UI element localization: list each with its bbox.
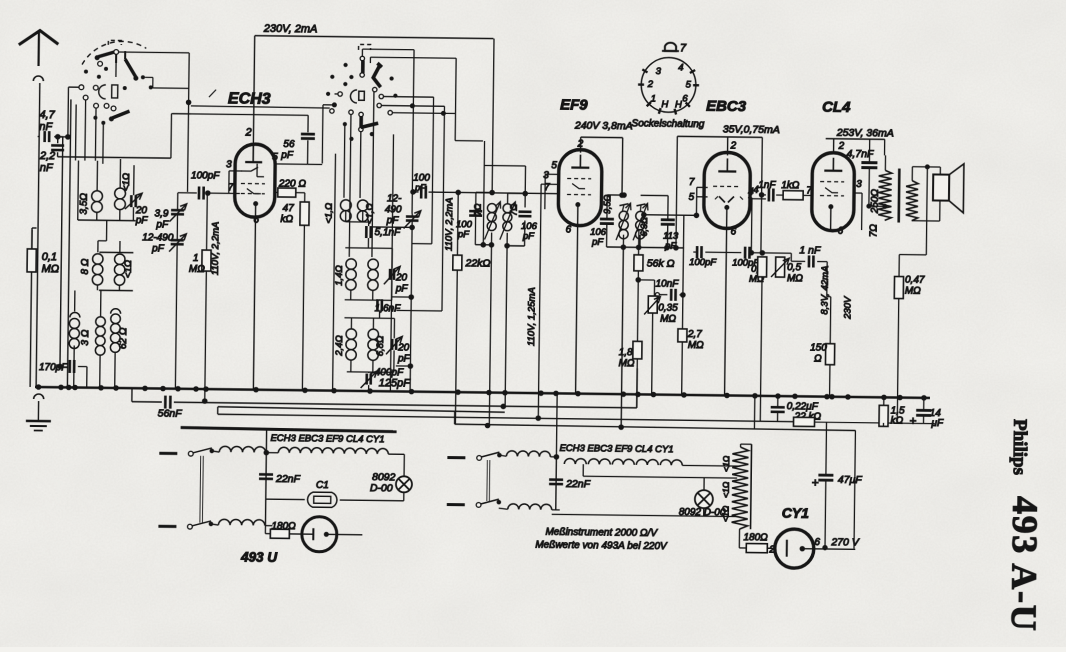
label 35V 0,75mA (723, 123, 780, 136)
wire grid left (178, 192, 197, 194)
wire left col (30, 230, 36, 387)
wire 828 detail (827, 268, 831, 297)
svg-text:2,2: 2,2 (39, 150, 55, 162)
svg-text:2: 2 (730, 140, 737, 151)
wire left verticals (54, 99, 71, 387)
socket bell 7 (662, 42, 687, 54)
resistor 22kohm (451, 190, 491, 424)
EBC3 pin2 wire (727, 137, 736, 156)
svg-text:110V, 1,25mA: 110V, 1,25mA (526, 287, 538, 346)
mid stack wiring (320, 154, 396, 409)
resistor 1kohm cpl (776, 180, 812, 200)
capacitor 1nF det (791, 244, 828, 296)
svg-text:<1,Ω: <1,Ω (324, 203, 335, 224)
svg-text:Ω: Ω (814, 354, 822, 365)
EBC3 internals (713, 158, 744, 228)
bus dots (36, 385, 926, 400)
trimmer 400pF 125pF (361, 367, 412, 390)
wire 0,1M tap (32, 228, 37, 249)
heater row R (559, 443, 740, 466)
svg-text:7: 7 (680, 42, 687, 54)
trimmer 20pF c (386, 336, 411, 364)
socket circle (638, 57, 700, 115)
ECH3 pin7 (228, 182, 240, 193)
svg-text:270 V: 270 V (830, 536, 860, 548)
svg-text:4,7: 4,7 (39, 109, 55, 121)
band switch S1 dashed arc (82, 41, 146, 65)
wire EBC3 anode load (674, 136, 765, 253)
trimmer 3,9pF (154, 192, 186, 230)
svg-text:20: 20 (397, 342, 410, 353)
coil M1b (357, 200, 376, 224)
wire grid-top (536, 209, 545, 420)
wire 755 (753, 396, 755, 429)
svg-text:pF: pF (414, 183, 426, 193)
svg-text:3: 3 (656, 66, 662, 77)
coil IF2b 6,3ohm (633, 203, 649, 240)
svg-text:35V,0,75mA: 35V,0,75mA (723, 123, 780, 136)
svg-text:<1,Ω: <1,Ω (365, 203, 376, 224)
resistor 180ohm R (739, 532, 775, 555)
svg-text:8,3V, 42mA: 8,3V, 42mA (820, 266, 832, 315)
capacitor 2,2nF (39, 137, 65, 175)
svg-text:10nF: 10nF (655, 279, 679, 290)
coil M2a (334, 259, 357, 290)
coil L3b (95, 307, 106, 356)
svg-text:230V, 2mA: 230V, 2mA (263, 23, 318, 36)
wire 230V corner down (490, 39, 497, 195)
label CL4 (822, 99, 851, 116)
resistor 0,1Mohm det (756, 251, 767, 422)
wire 884 col (881, 320, 883, 322)
tuner 12-490pF osc (371, 193, 421, 392)
wire w2 to IF1 (481, 141, 487, 247)
svg-text:3 Ω: 3 Ω (80, 329, 91, 345)
capacitor 10nF (654, 279, 685, 301)
svg-text:pF: pF (397, 353, 411, 364)
ground (26, 387, 52, 431)
svg-text:150: 150 (810, 342, 827, 353)
CL4 pin3 (854, 179, 863, 230)
svg-text:CL4: CL4 (822, 99, 851, 116)
label 4,7nF out (846, 148, 874, 160)
svg-text:5: 5 (689, 192, 695, 203)
svg-text:<1Ω: <1Ω (721, 481, 731, 498)
svg-text:2,7: 2,7 (687, 329, 702, 340)
bus 493U heavy (181, 428, 397, 432)
wire right col (899, 167, 927, 277)
svg-text:pF: pF (151, 243, 165, 254)
coil M2b (368, 259, 379, 290)
tube EBC3 (704, 152, 751, 229)
EF9 pin3 (541, 170, 558, 209)
capacitor 22nF 493U (259, 473, 301, 486)
resistor 22kohm h (793, 411, 821, 426)
IF2 left box (607, 193, 627, 248)
coil IF2a 9,5ohm (602, 194, 631, 240)
choke R bottom (499, 502, 560, 510)
bus C1 (218, 407, 505, 418)
svg-text:20: 20 (395, 272, 408, 283)
coil IF1b 7ohm (500, 202, 519, 240)
svg-text:Philips: Philips (1009, 419, 1031, 475)
svg-text:56: 56 (283, 139, 295, 150)
svg-text:MΩ: MΩ (905, 286, 921, 297)
wire dropper taps (738, 529, 740, 548)
capacitor 5,1nF (362, 211, 401, 238)
capacitor 4,7nF out (861, 139, 878, 208)
capacitor 0,22uF (771, 396, 819, 422)
ECH3 pin2 wire (244, 127, 253, 145)
choke 493U top (212, 446, 279, 453)
svg-text:1kΩ: 1kΩ (781, 180, 800, 191)
switch S1 small arc (99, 85, 106, 99)
svg-text:5: 5 (686, 80, 692, 91)
switch S2 studs (326, 63, 397, 141)
svg-text:5,1nF: 5,1nF (374, 227, 401, 238)
svg-text:+: + (812, 475, 819, 489)
mains terminals L (158, 453, 177, 526)
label 253V 36mA (836, 127, 894, 140)
capacitor 4,7nF top-left (39, 109, 56, 142)
capacitor 56pF (172, 114, 315, 162)
svg-text:<1Ω: <1Ω (121, 173, 132, 191)
capacitor 14uF (909, 398, 944, 429)
svg-text:0,1: 0,1 (42, 251, 57, 263)
svg-text:<1Ω: <1Ω (721, 455, 731, 472)
svg-text:H: H (661, 99, 668, 110)
lamp 8092 (370, 471, 412, 501)
capacitor 113pF if2 (660, 220, 679, 252)
label 110V 2,2mA left (210, 222, 222, 276)
svg-text:110V, 2,2mA: 110V, 2,2mA (210, 222, 222, 276)
label 110V 1,25mA (526, 287, 538, 346)
bus C2 (218, 414, 935, 423)
svg-text:5: 5 (551, 160, 557, 171)
switch S2 rotor bar 2 (359, 112, 364, 131)
wire antenna down (36, 83, 40, 387)
resistor 220ohm (275, 178, 307, 197)
resistor 1,8Mohm (618, 341, 642, 408)
label Philips (1009, 419, 1031, 475)
svg-text:nF: nF (40, 162, 54, 174)
EF9 cathode down (564, 224, 578, 393)
left block wiring bottom (60, 290, 116, 388)
coil IF1a 7ohm (472, 201, 500, 239)
coil L1a 3,5ohm (79, 191, 103, 215)
svg-text:12-: 12- (387, 193, 402, 204)
label 270V (830, 536, 860, 548)
capacitor 100pF ser (411, 173, 436, 199)
capacitor 106pF if1 (518, 212, 538, 242)
label 110V 2,2mA mid (444, 197, 456, 251)
svg-text:<1Ω: <1Ω (123, 260, 134, 278)
capacitor 1nF cpl (758, 180, 776, 202)
switch S2 lever 2 (361, 123, 379, 128)
EF9 pin7 (433, 181, 558, 194)
lamp 8092 R (679, 477, 727, 518)
label Messinstrument (535, 527, 668, 553)
svg-text:MΩ: MΩ (688, 340, 704, 351)
wire heater tap (583, 464, 737, 478)
svg-text:0,35: 0,35 (658, 303, 678, 314)
IF1 bottoms (475, 207, 494, 247)
svg-text:1,4Ω: 1,4Ω (334, 265, 345, 286)
capacitor 100pF if1 (456, 211, 482, 241)
svg-text:EBC3: EBC3 (706, 98, 747, 115)
ECH3 pin3 (226, 159, 242, 193)
heater row 493U (270, 433, 405, 477)
IF2 bottom wire (604, 234, 684, 430)
CL4 cathode down (829, 226, 844, 397)
svg-text:EF9: EF9 (560, 96, 588, 113)
wire 230V top (254, 23, 494, 134)
label ECH3 (209, 90, 271, 108)
wire switch2 to coils (390, 134, 393, 391)
wire sec (912, 165, 941, 221)
capacitor 170pF (39, 360, 87, 388)
svg-text:nF: nF (39, 121, 53, 133)
dropper zigzag (721, 444, 749, 529)
IF2 grid tap (642, 176, 708, 217)
resistor 1Mohm (187, 193, 212, 404)
choke 493U bottom (211, 519, 273, 526)
EBC3 cathode down (725, 226, 737, 395)
svg-text:493 A-U: 493 A-U (1004, 496, 1046, 633)
label 8,3V 42mA (820, 266, 832, 315)
svg-text:22kΩ: 22kΩ (464, 257, 490, 269)
tube CY1 (775, 505, 856, 569)
IF1 right box (483, 165, 528, 248)
coil L2a 8ohm (80, 254, 103, 285)
lamp C1 (266, 479, 404, 508)
capacitor 22nF R (549, 478, 591, 491)
tube CL4 (812, 152, 855, 231)
tube W 493U (302, 517, 363, 553)
label EF9 (560, 96, 588, 113)
svg-text:pF: pF (155, 219, 169, 230)
svg-text:22nF: 22nF (565, 478, 591, 490)
switch S1 studs (84, 67, 153, 125)
wire 856 down (854, 431, 855, 549)
trimmer 12-490pF a (140, 214, 186, 389)
svg-text:Meßwerte von 493A bei 220V: Meßwerte von 493A bei 220V (535, 540, 668, 553)
wire 684 vertical (682, 215, 683, 329)
label 493 A-U (1004, 496, 1046, 633)
label EBC3 (706, 98, 747, 115)
svg-text:pF: pF (395, 283, 409, 294)
ECH3 pin5 (272, 140, 322, 165)
svg-text:6,8Ω: 6,8Ω (375, 336, 386, 357)
trimmer 20pF (125, 193, 149, 226)
svg-text:1: 1 (193, 253, 199, 264)
resistor 47kohm (278, 192, 309, 390)
ECH3 pin6 (253, 215, 259, 226)
svg-text:+: + (909, 414, 916, 428)
svg-text:4: 4 (678, 62, 683, 73)
svg-text:4: 4 (748, 187, 754, 198)
svg-text:253V, 36mA: 253V, 36mA (836, 127, 894, 140)
wire ECH3 cath (253, 217, 255, 389)
ECH3 internals (241, 144, 266, 217)
svg-text:22nF: 22nF (275, 473, 301, 485)
secondary (906, 181, 918, 221)
EBC3 pin4 wire (747, 187, 754, 255)
svg-text:5: 5 (272, 152, 278, 163)
svg-text:MΩ: MΩ (41, 263, 59, 275)
label 240V 3,8mA (574, 120, 633, 133)
svg-text:3: 3 (226, 159, 232, 170)
capacitor 100pF grid (191, 170, 236, 200)
svg-text:kΩ: kΩ (890, 415, 903, 426)
svg-text:6: 6 (682, 94, 688, 105)
coil M1a (324, 200, 352, 224)
svg-text:MΩ: MΩ (189, 264, 205, 275)
svg-text:D-00: D-00 (370, 482, 393, 494)
coil L3a 3ohm (69, 312, 91, 348)
primary 250ohm (869, 170, 892, 237)
left block wiring top (78, 159, 137, 221)
coil M3a (334, 329, 357, 360)
svg-text:1: 1 (651, 94, 656, 105)
svg-text:Sockelschaltung: Sockelschaltung (632, 118, 705, 130)
tap wire (869, 204, 887, 208)
socket numbers (646, 62, 691, 111)
svg-text:2: 2 (647, 79, 654, 90)
switch S1 center slot (112, 85, 118, 98)
svg-text:pF: pF (135, 215, 149, 226)
switch S2 small arc (350, 90, 357, 103)
svg-text:7: 7 (689, 177, 695, 188)
CL4 internals (820, 158, 845, 231)
switch S1 wiring (67, 51, 191, 191)
tube EF9 (558, 149, 602, 226)
svg-text:μF: μF (930, 418, 944, 429)
svg-text:1,8: 1,8 (619, 347, 633, 358)
svg-text:170pF: 170pF (39, 362, 68, 373)
svg-text:240V 3,8mA: 240V 3,8mA (574, 120, 633, 133)
svg-text:100pF: 100pF (191, 170, 220, 181)
svg-text:7Ω: 7Ω (869, 224, 880, 238)
svg-text:56k Ω: 56k Ω (647, 257, 675, 269)
switch S1 lever 3 (109, 111, 129, 121)
antenna (18, 30, 58, 81)
trimmer 20pF b (384, 266, 409, 294)
bus L1 main (35, 387, 930, 398)
svg-text:125pF: 125pF (379, 377, 412, 389)
svg-text:2,4Ω: 2,4Ω (334, 335, 345, 357)
svg-text:9,5Ω: 9,5Ω (602, 194, 612, 214)
svg-text:3: 3 (856, 179, 862, 190)
svg-text:180Ω: 180Ω (743, 532, 768, 543)
switch S1 lever 1 (95, 51, 116, 63)
coil L2b 1ohm-2 (114, 254, 134, 285)
switch S1 contacts (79, 49, 119, 111)
speaker (933, 163, 964, 212)
capacitor 47uF (811, 422, 863, 550)
svg-text:6: 6 (730, 226, 736, 237)
svg-text:ECH3 EBC3 EF9 CL4 CY1: ECH3 EBC3 EF9 CL4 CY1 (559, 443, 673, 455)
EF9 pin5 (545, 160, 559, 209)
svg-text:6: 6 (814, 537, 820, 548)
svg-text:C1: C1 (316, 480, 329, 491)
resistor 0,1 M-ohm (26, 249, 60, 387)
svg-text:pF: pF (457, 229, 470, 240)
band switch S1 dashed stub (108, 40, 121, 45)
wire prim top (884, 139, 885, 170)
capacitor 1,6nF (375, 299, 402, 314)
label 493U (240, 549, 278, 564)
switch S2 rotor bar 1 (360, 56, 365, 77)
svg-text:3,5Ω: 3,5Ω (79, 193, 90, 215)
svg-text:110V, 2,2mA: 110V, 2,2mA (444, 197, 456, 251)
junction R (553, 395, 559, 510)
svg-text:1,6nF: 1,6nF (375, 303, 402, 314)
svg-text:ECH3 EBC3 EF9 CL4 CY1: ECH3 EBC3 EF9 CL4 CY1 (270, 433, 384, 445)
wire 2.2nF node (55, 112, 190, 158)
svg-text:CY1: CY1 (782, 505, 810, 521)
svg-text:250Ω: 250Ω (870, 189, 881, 215)
switch S2 lever 1 (373, 63, 382, 92)
wire IF1 down (485, 245, 507, 428)
svg-text:47μF: 47μF (838, 474, 863, 486)
resistor 56kohm (633, 230, 675, 342)
resistor 1,5kohm (879, 397, 905, 426)
svg-text:MΩ: MΩ (618, 358, 634, 369)
svg-text:H: H (675, 99, 682, 110)
svg-text:7: 7 (544, 182, 550, 193)
pot 0,5Mohm vol (769, 257, 803, 422)
EBC3 pin4 (750, 185, 766, 199)
svg-text:Meßinstrument 2000 Ω/V: Meßinstrument 2000 Ω/V (545, 527, 658, 539)
capacitor 106pF if2 (590, 219, 614, 248)
left block wiring mid (92, 220, 134, 290)
coil M3b (368, 329, 387, 360)
junction 493U (263, 430, 269, 526)
svg-text:3: 3 (543, 170, 549, 181)
svg-text:6: 6 (838, 226, 844, 237)
svg-text:7Ω: 7Ω (473, 203, 483, 215)
svg-text:kΩ: kΩ (280, 214, 293, 225)
svg-text:490: 490 (385, 204, 402, 215)
EF9 pin2 wire (576, 137, 625, 197)
pot 0,35Mohm (643, 296, 678, 395)
svg-text:0,47: 0,47 (905, 275, 925, 286)
svg-text:230V: 230V (842, 295, 853, 320)
switch S2 center slot (359, 91, 365, 100)
svg-text:62 Ω: 62 Ω (118, 327, 129, 349)
svg-text:56nF: 56nF (158, 408, 183, 420)
svg-text:pF: pF (280, 150, 294, 161)
svg-text:0,5: 0,5 (787, 262, 801, 273)
resistor 180ohm 493U (265, 521, 302, 539)
wire cpl (803, 194, 813, 196)
wire 56k tap (638, 280, 654, 296)
svg-text:1 nF: 1 nF (799, 244, 821, 256)
switch S2 contacts (330, 92, 393, 115)
svg-text:47: 47 (283, 203, 295, 214)
svg-text:12-490: 12-490 (142, 232, 174, 243)
capacitor 56nF (158, 396, 183, 420)
svg-text:6: 6 (253, 215, 259, 226)
svg-text:pF: pF (522, 231, 535, 242)
resistor 0,47Mohm (883, 274, 925, 423)
svg-text:2: 2 (244, 127, 251, 139)
coil L3c 62ohm (110, 309, 130, 353)
label 230V (842, 295, 853, 320)
choke R top (499, 451, 556, 457)
switch 493U (187, 448, 213, 530)
